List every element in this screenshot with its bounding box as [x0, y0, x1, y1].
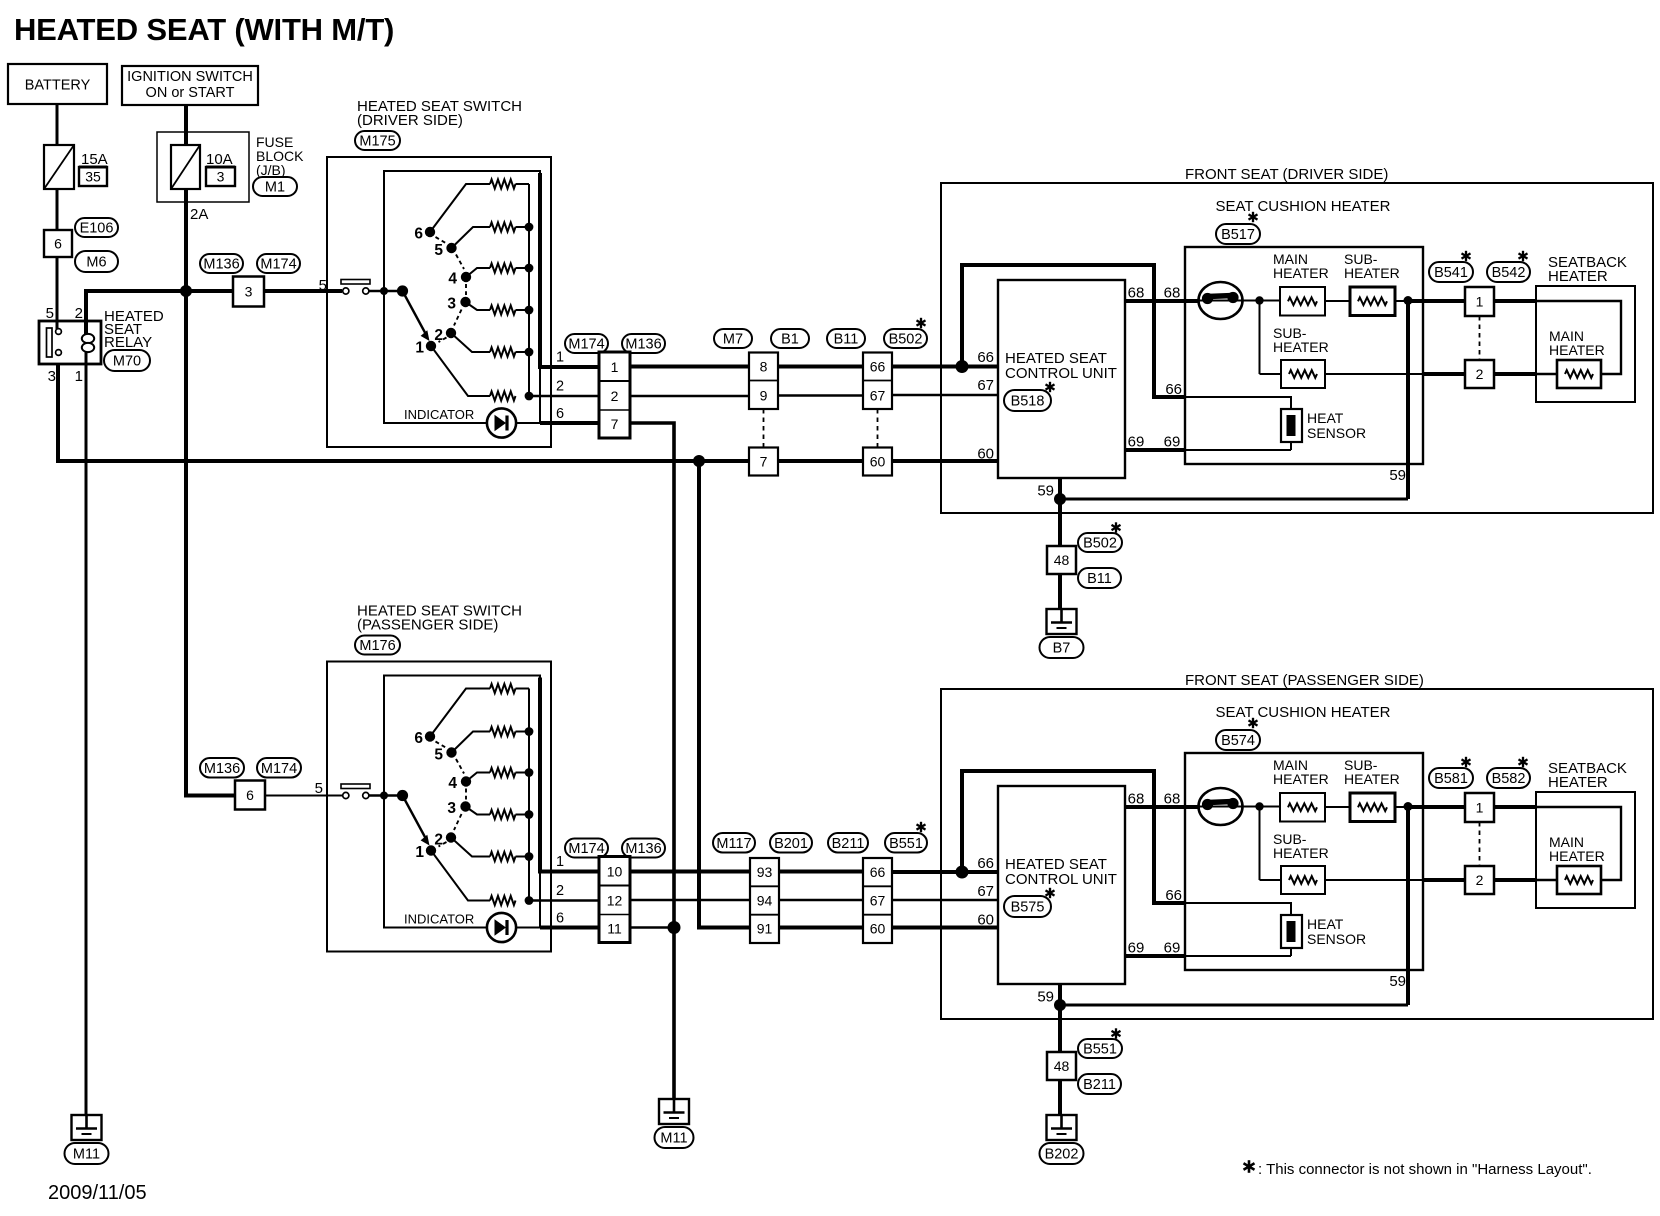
wire: relay pin 3 to power bus [58, 364, 998, 461]
connector M175 [355, 131, 400, 150]
svg-text:48: 48 [1054, 1058, 1070, 1074]
svg-text:B502: B502 [889, 332, 923, 348]
svg-text:1: 1 [1476, 800, 1484, 816]
svg-text:HEATER: HEATER [1548, 774, 1608, 791]
svg-text:: This connector is not shown: : This connector is not shown in "Harnes… [1258, 1161, 1592, 1178]
wire: power bus branch to passenger pin 60 [699, 461, 863, 928]
seatback connector pin 1 [1465, 287, 1494, 316]
connector M136 [622, 839, 665, 858]
svg-text:59: 59 [1037, 989, 1054, 1006]
connector B502 (*) [884, 329, 927, 348]
seatback connector pin 2 [1465, 866, 1494, 894]
wire and node to seatback feed [1395, 300, 1412, 302]
svg-text:B201: B201 [774, 836, 808, 852]
ground M11 (left) [72, 1115, 102, 1140]
ground B7 [1047, 609, 1077, 634]
svg-text:60: 60 [977, 446, 994, 463]
svg-text:66: 66 [870, 864, 886, 880]
svg-text:1: 1 [556, 854, 564, 870]
front seat (Driver) outer box [941, 183, 1653, 513]
svg-text:B551: B551 [889, 836, 923, 852]
svg-text:11: 11 [607, 921, 622, 937]
svg-text:3: 3 [447, 800, 456, 817]
svg-text:91: 91 [757, 921, 773, 937]
relay coil [82, 334, 94, 343]
fuse 10A [171, 145, 200, 189]
svg-text:48: 48 [1054, 552, 1070, 568]
svg-text:5: 5 [319, 277, 327, 294]
svg-text:6: 6 [556, 406, 564, 422]
svg-text:69: 69 [1128, 940, 1145, 957]
wire: branch down to lower sub-heater [1259, 301, 1261, 375]
svg-text:1: 1 [415, 844, 424, 861]
battery [8, 64, 107, 104]
connector B211 [828, 833, 868, 853]
wire: passenger indicator wire to ground line [630, 926, 674, 928]
svg-text:B11: B11 [1087, 571, 1112, 587]
connector M174 (passenger feed) [257, 758, 301, 778]
svg-text:HEATER: HEATER [1273, 265, 1329, 281]
wiper arm with arrow [403, 291, 426, 334]
svg-text:E106: E106 [80, 221, 114, 237]
heated seat control unit B575 [998, 786, 1125, 984]
resistor row 5 (position 2) [451, 333, 490, 352]
svg-text:59: 59 [1389, 467, 1406, 484]
switch position contacts 1-6 [425, 227, 435, 237]
switch inner box [384, 171, 540, 423]
dashed detent links [436, 237, 447, 244]
svg-text:1: 1 [611, 359, 619, 375]
connector M1 [253, 177, 297, 196]
svg-text:66: 66 [977, 855, 994, 872]
svg-text:B1: B1 [781, 332, 799, 348]
connector B517 [1216, 224, 1260, 244]
heat sensor [1281, 915, 1302, 948]
connector M174 [565, 839, 608, 858]
svg-text:69: 69 [1164, 434, 1181, 451]
svg-text:2A: 2A [190, 206, 208, 223]
svg-text:M174: M174 [568, 841, 604, 857]
wire: pin 68 to thermostat [1125, 299, 1199, 303]
wire: passenger pin wires to connectors [630, 870, 750, 874]
svg-text:2009/11/05: 2009/11/05 [48, 1182, 147, 1204]
svg-text:1: 1 [556, 350, 564, 366]
svg-text:67: 67 [977, 883, 994, 900]
svg-text:B211: B211 [1083, 1077, 1116, 1093]
push-button contact [341, 784, 370, 789]
svg-text:HEATER: HEATER [1549, 342, 1605, 358]
svg-text:2: 2 [611, 388, 619, 404]
wire: switch pin 6 output [540, 926, 599, 930]
connector pins 93/94/91 (M117-B201) [750, 858, 779, 943]
svg-text:6: 6 [414, 226, 423, 243]
wire: control unit 66 loop to heat sensor [962, 771, 1185, 903]
wire: resistor rail [528, 689, 530, 901]
svg-text:68: 68 [1164, 791, 1181, 808]
wire: driver pin2/67 wire [630, 395, 749, 397]
thermostat [1199, 282, 1243, 319]
svg-text:6: 6 [54, 236, 62, 252]
svg-text:B582: B582 [1492, 771, 1526, 787]
svg-text:5: 5 [434, 747, 443, 764]
svg-text:2: 2 [75, 305, 83, 322]
svg-text:SENSOR: SENSOR [1307, 425, 1366, 441]
svg-text:2: 2 [1476, 366, 1484, 382]
wire: pin1 to seatback [1494, 299, 1536, 303]
wire: ignition bus to relay pin 2 [86, 291, 233, 334]
svg-text:M174: M174 [260, 257, 296, 273]
svg-text:INDICATOR: INDICATOR [404, 407, 474, 422]
connector pins 66/67/60 (B211-B551) [863, 858, 892, 943]
wire: pin 59 net [1406, 303, 1410, 499]
wire and node after thermostat [1243, 300, 1281, 302]
svg-text:3: 3 [48, 368, 56, 385]
svg-text:6: 6 [246, 787, 254, 803]
wire: seatback internal loop [1536, 807, 1621, 880]
svg-text:B575: B575 [1011, 900, 1045, 916]
svg-text:9: 9 [760, 388, 768, 404]
svg-text:HEATER: HEATER [1273, 339, 1329, 355]
svg-text:B541: B541 [1434, 265, 1468, 281]
svg-text:M176: M176 [359, 638, 395, 654]
wire: heat sensor to pin 69 [1290, 442, 1292, 450]
wire and node to seatback feed [1395, 806, 1412, 808]
connector pin column ('1', '2', '7') [599, 352, 630, 438]
svg-text:2: 2 [556, 379, 564, 395]
fuse 15A [44, 145, 74, 189]
svg-text:BATTERY: BATTERY [25, 78, 91, 94]
svg-text:M11: M11 [73, 1147, 100, 1163]
svg-text:67: 67 [870, 892, 886, 908]
svg-text:M11: M11 [660, 1131, 687, 1147]
svg-text:66: 66 [870, 359, 886, 375]
svg-text:6: 6 [414, 730, 423, 747]
connector pins 66/67 (B11-B502) [863, 353, 892, 410]
svg-text:2: 2 [1476, 872, 1484, 888]
svg-text:M136: M136 [204, 761, 240, 777]
svg-text:B7: B7 [1053, 641, 1071, 657]
svg-text:B11: B11 [834, 332, 859, 348]
connector B542 [1487, 262, 1530, 282]
svg-text:ON or START: ON or START [146, 85, 235, 101]
switch position contacts 1-6 [425, 731, 435, 741]
svg-text:HEATER: HEATER [1548, 268, 1608, 285]
svg-text:CONTROL UNIT: CONTROL UNIT [1005, 871, 1117, 888]
switch inner box [384, 676, 540, 928]
svg-text:59: 59 [1389, 973, 1406, 990]
svg-text:B502: B502 [1083, 536, 1117, 552]
wire: pin 68 to thermostat [1125, 805, 1199, 809]
wire: battery feed down [56, 104, 59, 329]
svg-text:35: 35 [85, 169, 101, 185]
node: wire 66 junction driver [956, 360, 969, 373]
svg-text:7: 7 [760, 454, 768, 470]
node: ignition junction [180, 285, 192, 297]
connector B574 [1216, 730, 1260, 750]
svg-text:10A: 10A [206, 151, 233, 168]
connector pin column ('10', '12', '11') [599, 857, 630, 943]
svg-text:SEAT CUSHION HEATER: SEAT CUSHION HEATER [1215, 198, 1390, 215]
svg-text:4: 4 [448, 271, 457, 288]
wire: switch pin 1 output [540, 173, 599, 367]
resistor row 2 (position 5) [452, 732, 491, 753]
ground M11 (center) [659, 1099, 689, 1124]
svg-text:B574: B574 [1221, 733, 1255, 749]
connector pin 3 (driver feed) [233, 277, 264, 307]
svg-text:3: 3 [217, 169, 225, 185]
svg-text:3: 3 [447, 296, 456, 313]
svg-text:B581: B581 [1434, 771, 1468, 787]
svg-text:68: 68 [1128, 285, 1145, 302]
svg-text:7: 7 [611, 416, 619, 432]
heat sensor [1281, 409, 1302, 442]
svg-text:60: 60 [870, 921, 886, 937]
seatback heater box [1536, 286, 1635, 402]
svg-text:HEATER: HEATER [1273, 845, 1329, 861]
resistor row 5 (position 2) [451, 838, 490, 857]
connector M117 [713, 833, 755, 853]
resistor row 3 (position 4) [466, 773, 490, 782]
ignition switch [122, 66, 258, 105]
svg-text:1: 1 [75, 368, 83, 385]
svg-text:RELAY: RELAY [104, 334, 152, 351]
connector B1 [771, 329, 809, 348]
svg-text:5: 5 [434, 242, 443, 259]
connector E106 / pin 6 / M6 [75, 218, 118, 237]
indicator LED [487, 408, 516, 437]
wire: driver pin1 wire to connectors [630, 365, 749, 369]
svg-text:M7: M7 [723, 332, 743, 348]
heated seat switch (Driver) outer box [327, 157, 551, 447]
seat cushion heater box [1185, 247, 1423, 464]
svg-text:60: 60 [870, 454, 886, 470]
svg-text:67: 67 [870, 388, 886, 404]
svg-text:FRONT SEAT (PASSENGER SIDE): FRONT SEAT (PASSENGER SIDE) [1185, 672, 1424, 689]
svg-text:2: 2 [556, 883, 564, 899]
resistor row 3 (position 4) [466, 268, 490, 277]
svg-text:5: 5 [315, 780, 323, 797]
svg-text:3: 3 [245, 284, 253, 300]
svg-text:10: 10 [607, 864, 623, 880]
connector M174 [565, 334, 608, 353]
wire: switch pin 2 output [529, 395, 599, 397]
wire: switch pin 6 output [540, 421, 599, 425]
heated seat relay M70 [39, 321, 101, 364]
svg-text:M70: M70 [113, 354, 141, 370]
connector M136 (passenger feed) [200, 758, 244, 778]
wire: lower sub-heater to seatback pin 2 [1325, 879, 1423, 881]
svg-text:66: 66 [1165, 887, 1182, 904]
heated seat control unit B518 [998, 280, 1125, 478]
seatback connector pin 2 [1465, 360, 1494, 388]
connector B581 [1429, 768, 1473, 788]
svg-text:HEATER: HEATER [1549, 848, 1605, 864]
wire: pin2 to seatback [1494, 878, 1536, 882]
svg-text:IGNITION SWITCH: IGNITION SWITCH [127, 69, 253, 85]
svg-text:4: 4 [448, 775, 457, 792]
ground B202 [1047, 1115, 1077, 1140]
svg-text:66: 66 [977, 349, 994, 366]
svg-text:B517: B517 [1221, 227, 1255, 243]
svg-text:INDICATOR: INDICATOR [404, 912, 474, 927]
wire: lower sub-heater to seatback pin 2 [1325, 373, 1423, 375]
svg-text:M136: M136 [203, 257, 239, 273]
svg-text:M6: M6 [86, 255, 106, 271]
svg-text:(DRIVER SIDE): (DRIVER SIDE) [357, 112, 463, 129]
svg-text:1: 1 [1476, 294, 1484, 310]
connector B551 (*) [885, 833, 927, 853]
resistor row 2 (position 5) [452, 227, 491, 248]
svg-text:B202: B202 [1045, 1147, 1079, 1163]
wire: bus box3 to driver switch [264, 289, 342, 293]
connector M174 (driver feed) [257, 254, 300, 273]
connector pin 7 (M7-B1) [749, 448, 778, 476]
svg-text:M136: M136 [625, 841, 661, 857]
node: power bus junction [693, 455, 705, 467]
wire: pin2 to seatback [1494, 372, 1536, 376]
wiper arm with arrow [403, 796, 426, 839]
svg-text:HEATER: HEATER [1344, 265, 1400, 281]
resistor row 4 (position 3) [466, 302, 491, 310]
svg-text:69: 69 [1128, 434, 1145, 451]
heated seat switch (Passenger) outer box [327, 662, 551, 952]
connector pin 60 (B11-B502) [863, 448, 892, 476]
connector M176 [355, 636, 400, 655]
svg-text:FRONT SEAT (DRIVER SIDE): FRONT SEAT (DRIVER SIDE) [1185, 166, 1388, 183]
svg-text:HEATER: HEATER [1344, 771, 1400, 787]
resistor row 6 (position 1) [431, 346, 490, 396]
resistor row 4 (position 3) [466, 807, 491, 815]
wire: heat sensor to pin 69 [1290, 948, 1292, 956]
push-button contact [341, 280, 370, 285]
connector B582 [1487, 768, 1530, 788]
svg-text:B551: B551 [1083, 1042, 1117, 1058]
resistor row 1 (position 6) [430, 689, 490, 737]
svg-text:68: 68 [1128, 791, 1145, 808]
seat cushion heater box [1185, 753, 1423, 970]
wire to ground [1058, 1080, 1062, 1115]
svg-text:60: 60 [977, 912, 994, 929]
front seat (Passenger) outer box [941, 689, 1653, 1019]
connector B201 [770, 833, 812, 853]
wire: branch down to lower sub-heater [1259, 807, 1261, 881]
node: wiper pivot [397, 790, 408, 801]
thermostat [1199, 788, 1243, 825]
connector B11 [827, 329, 865, 348]
node: inner box entry [380, 287, 388, 295]
wire [1325, 300, 1350, 302]
wire: resistor rail [528, 184, 530, 396]
indicator LED [487, 913, 516, 942]
fuse block (J/B) [157, 132, 249, 202]
note: connector not shown in harness layout [1248, 1160, 1251, 1173]
svg-text:M174: M174 [261, 761, 297, 777]
seatback connector pin 1 [1465, 793, 1494, 822]
svg-text:66: 66 [1165, 381, 1182, 398]
svg-text:M1: M1 [265, 180, 285, 196]
svg-text:M136: M136 [625, 337, 661, 353]
svg-text:M175: M175 [359, 134, 395, 150]
svg-text:67: 67 [977, 377, 994, 394]
svg-text:8: 8 [760, 359, 768, 375]
svg-text:12: 12 [607, 893, 623, 909]
connector M7 [714, 329, 752, 348]
svg-text:69: 69 [1164, 940, 1181, 957]
svg-text:15A: 15A [81, 151, 108, 168]
node: indicator ground junction [668, 921, 681, 934]
svg-text:68: 68 [1164, 285, 1181, 302]
svg-text:M117: M117 [716, 836, 751, 852]
svg-text:1: 1 [415, 340, 424, 357]
svg-text:5: 5 [46, 305, 54, 322]
wire: switch pin 1 output [540, 678, 599, 872]
svg-text:B518: B518 [1011, 394, 1045, 410]
connector M136 [622, 334, 665, 353]
wire: pin 59 net [1406, 809, 1410, 1005]
node: inner box entry [380, 792, 388, 800]
svg-text:(PASSENGER SIDE): (PASSENGER SIDE) [357, 617, 498, 634]
wire: driver indicator ground wire [630, 423, 674, 1099]
wire: seatback internal loop [1536, 301, 1621, 374]
svg-text:HEAT: HEAT [1307, 916, 1344, 932]
svg-text:HEATED SEAT (WITH M/T): HEATED SEAT (WITH M/T) [14, 12, 394, 47]
connector B551 / B211 pin 48 [1047, 1052, 1076, 1080]
wire: wiper feed [369, 290, 398, 293]
wire: ignition feed down to passenger branch [186, 105, 235, 796]
svg-text:(J/B): (J/B) [256, 162, 286, 178]
connector B502 / B11 pin 48 [1047, 546, 1076, 574]
svg-text:CONTROL UNIT: CONTROL UNIT [1005, 365, 1117, 382]
connector B541 [1429, 262, 1473, 282]
node: wiper pivot [397, 285, 408, 296]
wire: control unit 66 loop to heat sensor [962, 265, 1185, 397]
svg-text:59: 59 [1037, 483, 1054, 500]
svg-text:B211: B211 [832, 836, 865, 852]
svg-text:SENSOR: SENSOR [1307, 931, 1366, 947]
resistor row 6 (position 1) [431, 851, 490, 901]
wire to ground [1058, 574, 1062, 609]
connector M136 (driver feed) [200, 254, 243, 273]
wire: pin1 to seatback [1494, 805, 1536, 809]
svg-text:SEAT CUSHION HEATER: SEAT CUSHION HEATER [1215, 704, 1390, 721]
resistor row 1 (position 6) [430, 184, 490, 232]
wire [1325, 806, 1350, 808]
wire and node after thermostat [1243, 806, 1281, 808]
svg-text:94: 94 [757, 892, 773, 908]
wire: switch pin 2 output [529, 899, 599, 901]
svg-text:M174: M174 [568, 337, 604, 353]
wire: wiper feed [369, 794, 398, 797]
wire: box6 to passenger switch [265, 795, 342, 797]
svg-text:6: 6 [556, 911, 564, 927]
svg-text:B542: B542 [1492, 265, 1526, 281]
connector pins 8/9 (M7-B1) [749, 353, 778, 410]
node: wire 66 junction passenger [956, 866, 969, 879]
dashed detent links [436, 742, 447, 749]
connector pin 6 (passenger feed) [235, 781, 265, 810]
svg-text:93: 93 [757, 864, 773, 880]
svg-text:HEATER: HEATER [1273, 771, 1329, 787]
seatback heater box [1536, 792, 1635, 908]
svg-text:HEAT: HEAT [1307, 410, 1344, 426]
wire: relay pin 1 to ground M11 [85, 352, 88, 1115]
